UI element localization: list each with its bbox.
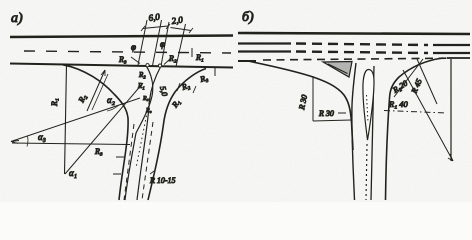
svg-text:α₃: α₃	[38, 132, 46, 142]
edge tick 2 (fig a)	[113, 173, 121, 175]
dim tick 6,0 right	[166, 24, 170, 29]
teardrop island (fig b)	[363, 70, 374, 141]
lane line 3 solid left (fig b)	[238, 50, 291, 52]
svg-text:а): а)	[11, 11, 23, 26]
small tick near R 10-15	[150, 171, 154, 174]
svg-text:R 30: R 30	[318, 109, 334, 118]
extension line 2 (fig a)	[153, 20, 162, 66]
tick left of sweep (fig b)	[338, 112, 346, 114]
slanted radius line (fig b)	[403, 70, 453, 161]
bottom edge solid left (fig b)	[238, 60, 256, 62]
main road bottom edge (fig a)	[10, 64, 233, 68]
svg-text:R₃: R₃	[94, 147, 103, 156]
svg-text:R₁: R₁	[195, 53, 204, 62]
lane line 2 dashed (fig b)	[296, 44, 428, 46]
dotted island line (fig a)	[136, 98, 150, 168]
svg-text:R₀: R₀	[145, 108, 152, 114]
left sweep curve (fig b)	[248, 61, 353, 150]
extension line 4 (fig a)	[176, 24, 186, 67]
arrowhead of R3 line	[11, 141, 19, 144]
dash-dot radius line (fig b)	[384, 111, 447, 114]
bottom edge solid right (fig b)	[447, 57, 470, 59]
R30 vertical leader (fig b)	[312, 76, 314, 121]
arrowhead R2	[101, 70, 105, 76]
black triangle island (fig b)	[323, 62, 352, 78]
tick right of R2 right curve	[193, 86, 196, 93]
main road top edge (fig a)	[10, 36, 233, 38]
inner edge of right branch (fig a)	[137, 66, 161, 200]
svg-text:6,0: 6,0	[148, 11, 161, 23]
radius line alpha1	[65, 83, 143, 174]
radius arrow R2 parallel stroke	[92, 74, 108, 110]
lane line 2 solid left (fig b)	[238, 42, 291, 44]
extension line 3 (fig a)	[161, 22, 169, 66]
svg-text:R 10-15: R 10-15	[149, 176, 176, 185]
svg-text:φ: φ	[131, 42, 136, 52]
angle arc alpha3	[27, 137, 28, 147]
svg-text:α₁: α₁	[69, 168, 77, 178]
arrowhead slanted line	[448, 154, 453, 161]
dimension line 6,0 (fig a)	[143, 26, 169, 29]
dashed centerline left branch (fig a)	[124, 124, 134, 200]
arrow R3	[131, 57, 140, 64]
nose point circle left	[146, 64, 149, 67]
dashed centerline right branch (fig a)	[142, 122, 153, 200]
edge tick 1 (fig a)	[116, 156, 124, 158]
radius arrow R2 left curve	[87, 70, 105, 111]
bottom edge dashed across junction (fig b)	[263, 58, 447, 60]
angle arc alpha2	[107, 105, 119, 111]
svg-text:R₁: R₁	[50, 98, 59, 107]
tick left of R2 right curve	[177, 83, 180, 91]
svg-text:R₁: R₁	[137, 82, 145, 90]
long radius line R3 with arrow	[11, 98, 140, 142]
extension line 1 (fig a)	[138, 20, 147, 65]
vertical construction line (fig a)	[65, 64, 67, 174]
svg-text:R₂: R₂	[168, 54, 177, 63]
left edge of minor road leg (fig b)	[352, 63, 356, 200]
inner edge of left branch (fig a)	[125, 66, 153, 201]
radius line R20 (fig b)	[394, 59, 423, 97]
lane line 2 solid right (fig b)	[433, 44, 470, 46]
main road top edge (fig b)	[238, 33, 470, 34]
svg-text:R₅: R₅	[142, 96, 149, 102]
dim tick 2,0 right	[189, 28, 193, 33]
dim tick 6,0 left	[141, 26, 145, 31]
lane edge line (fig b)	[371, 66, 374, 200]
R30 horizontal leader (fig b)	[313, 120, 351, 121]
vertical extension line (fig b)	[450, 59, 452, 161]
dimension line 2,0 (fig a)	[171, 28, 192, 31]
triangle inner diagonal	[328, 64, 348, 74]
svg-text:R₁ 40: R₁ 40	[388, 99, 409, 109]
lane line 3 dashed (fig b)	[296, 52, 428, 54]
svg-text:2,0: 2,0	[171, 14, 184, 26]
tick on centerline	[191, 48, 193, 57]
island interior dots	[367, 95, 369, 122]
svg-text:R₂: R₂	[138, 71, 146, 79]
main road dashed centerline (fig a)	[24, 51, 231, 53]
svg-text:б): б)	[242, 10, 254, 25]
right three-centered edge curve (fig a)	[148, 69, 206, 201]
horizontal construction line (fig a)	[12, 143, 130, 145]
nose point circle right	[158, 64, 161, 67]
left three-centered edge curve (fig a)	[63, 65, 128, 200]
right turn arc (fig b)	[386, 58, 444, 200]
arrow R2	[164, 59, 170, 65]
radius line R45 (fig b)	[417, 59, 437, 104]
tick on bottom edge x215	[214, 67, 216, 76]
lane line 3 solid right (fig b)	[433, 52, 470, 54]
svg-text:α₂: α₂	[107, 95, 115, 105]
island tail dotted line	[366, 144, 367, 200]
svg-text:R₃: R₃	[118, 55, 127, 64]
svg-text:φ: φ	[160, 39, 165, 49]
